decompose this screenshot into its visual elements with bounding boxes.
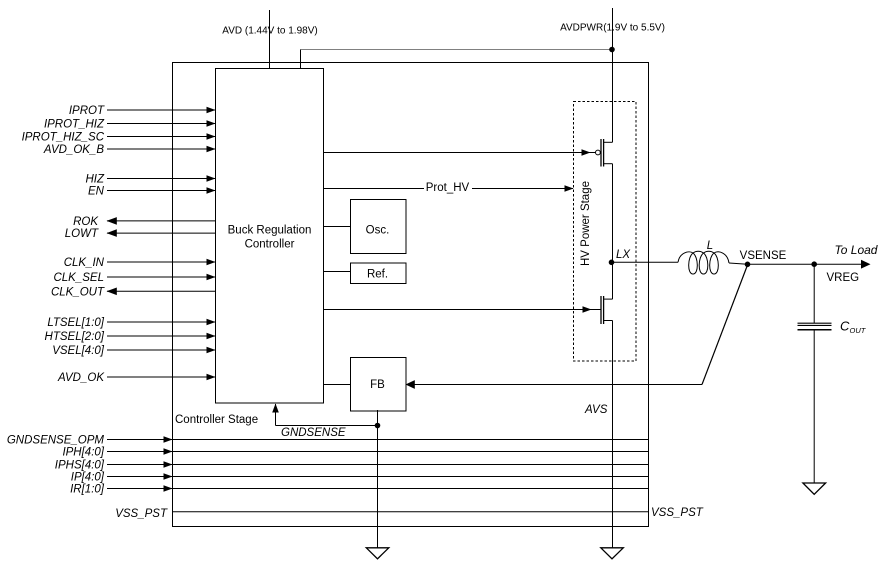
svg-text:HTSEL[2:0]: HTSEL[2:0]: [45, 331, 105, 343]
bus input GNDSENSE_OPM: [7, 435, 649, 447]
input EN: [88, 186, 215, 198]
wire NMOS drain to LX: [612, 262, 614, 299]
output ROK: [73, 216, 215, 228]
svg-text:IPROT_HIZ_SC: IPROT_HIZ_SC: [22, 132, 105, 144]
supply AVD label: [223, 24, 318, 35]
svg-text:L: L: [707, 240, 713, 252]
input HTSEL[2:0]: [45, 331, 216, 343]
svg-text:VSEL[4:0]: VSEL[4:0]: [52, 345, 105, 357]
wire feedback diagonal from VSENSE: [702, 265, 748, 385]
wire gate drive to NMOS (from controller): [324, 306, 601, 313]
svg-text:IPHS[4:0]: IPHS[4:0]: [55, 460, 105, 472]
svg-text:IR[1:0]: IR[1:0]: [70, 484, 105, 496]
net GNDSENSE: [272, 404, 377, 440]
input IPROT: [69, 105, 216, 117]
wire feedback horizontal into FB: [406, 380, 703, 389]
svg-text:IPROT: IPROT: [69, 105, 105, 117]
inductor L: [678, 240, 729, 274]
ground symbol GNDSENSE: [366, 548, 389, 559]
svg-text:GNDSENSE_OPM: GNDSENSE_OPM: [7, 435, 105, 447]
input AVD_OK_B: [43, 144, 216, 156]
input CLK_SEL: [53, 272, 215, 284]
bus input IPH[4:0]: [62, 447, 648, 459]
svg-text:GNDSENSE: GNDSENSE: [281, 427, 346, 439]
svg-text:Ref.: Ref.: [367, 269, 388, 281]
wire AVDPWR branch horizontal: [301, 49, 613, 51]
junction GNDSENSE node: [375, 423, 381, 429]
node VREG: [811, 261, 859, 284]
svg-text:LOWT: LOWT: [65, 228, 99, 240]
wire GNDSENSE down to ground: [377, 426, 379, 548]
block FB: [351, 358, 407, 412]
svg-text:Controller Stage: Controller Stage: [175, 414, 258, 426]
transistor Q2 NMOS low-side: [601, 296, 613, 324]
bus input IP[4:0]: [71, 472, 649, 484]
input LTSEL[1:0]: [47, 317, 215, 329]
net Prot_HV: [324, 181, 574, 195]
wire AVDPWR supply vertical top: [612, 8, 614, 142]
wire inductor to VSENSE: [729, 263, 748, 264]
svg-text:FB: FB: [370, 379, 385, 391]
supply AVDPWR label: [561, 21, 664, 32]
ground symbol COUT: [803, 483, 826, 494]
input AVD_OK: [57, 372, 216, 384]
svg-text:EN: EN: [88, 186, 105, 198]
wire AVDPWR branch vertical into controller: [300, 50, 302, 69]
node LX: [609, 249, 632, 265]
net AVS wire NMOS source down to ground: [584, 321, 613, 548]
svg-text:OUT: OUT: [850, 326, 867, 335]
wire controller to Ref: [324, 271, 350, 273]
svg-text:IPROT_HIZ: IPROT_HIZ: [44, 119, 105, 131]
svg-text:VSENSE: VSENSE: [740, 250, 787, 262]
transistor Q1 PMOS high-side: [596, 139, 613, 167]
output LOWT: [65, 228, 216, 240]
svg-text:IPH[4:0]: IPH[4:0]: [62, 447, 104, 459]
svg-text:VSS_PST: VSS_PST: [651, 507, 704, 519]
svg-text:CLK_SEL: CLK_SEL: [53, 272, 104, 284]
svg-text:Prot_HV: Prot_HV: [426, 182, 470, 194]
input HIZ: [85, 174, 215, 186]
wire FB bottom to GNDSENSE node: [377, 410, 379, 426]
svg-text:CLK_IN: CLK_IN: [64, 257, 105, 269]
junction AVDPWR node: [609, 47, 615, 53]
svg-text:CLK_OUT: CLK_OUT: [51, 286, 105, 298]
block Ref.: [351, 263, 407, 284]
input IPROT_HIZ: [44, 119, 216, 131]
wire VSENSE to VREG node: [748, 263, 815, 265]
bus input IR[1:0]: [70, 484, 648, 496]
svg-text:AVD_OK_B: AVD_OK_B: [43, 144, 104, 156]
wire LX to inductor: [612, 261, 679, 263]
svg-text:IP[4:0]: IP[4:0]: [71, 472, 105, 484]
bus input IPHS[4:0]: [55, 460, 649, 472]
block Osc.: [351, 200, 407, 254]
capacitor COUT: [798, 264, 867, 483]
svg-text:LTSEL[1:0]: LTSEL[1:0]: [47, 317, 104, 329]
svg-text:HIZ: HIZ: [85, 174, 105, 186]
input IPROT_HIZ_SC: [22, 132, 216, 144]
input VSEL[4:0]: [52, 345, 215, 357]
HV Power Stage dashed box: [574, 102, 637, 362]
wire gate drive to PMOS (from controller): [324, 149, 595, 156]
svg-text:To Load: To Load: [835, 243, 878, 257]
svg-text:AVD_OK: AVD_OK: [57, 372, 105, 384]
svg-text:VSS_PST: VSS_PST: [115, 508, 168, 520]
wire controller to FB: [324, 384, 350, 386]
svg-text:Buck Regulation: Buck Regulation: [228, 224, 312, 236]
input CLK_IN: [64, 257, 216, 269]
net VSS_PST rail: [115, 507, 704, 520]
wire to load with arrow: [814, 243, 878, 269]
svg-text:Controller: Controller: [245, 238, 295, 250]
svg-text:HV Power Stage: HV Power Stage: [580, 181, 592, 266]
block U1 Buck Regulation Controller: [216, 69, 324, 404]
svg-text:Osc.: Osc.: [366, 225, 390, 237]
wire controller to Osc: [324, 226, 350, 228]
svg-text:ROK: ROK: [73, 216, 99, 228]
wire PMOS source to LX: [612, 164, 614, 263]
ground symbol AVS: [601, 548, 624, 559]
node VSENSE: [740, 250, 787, 267]
chip outline (Controller Stage boundary): [173, 63, 649, 527]
wire AVD supply vertical: [269, 10, 271, 69]
svg-text:C: C: [840, 319, 850, 334]
svg-text:AVS: AVS: [584, 404, 608, 416]
output CLK_OUT: [51, 286, 216, 298]
svg-text:LX: LX: [616, 249, 631, 261]
svg-text:VREG: VREG: [827, 272, 860, 284]
